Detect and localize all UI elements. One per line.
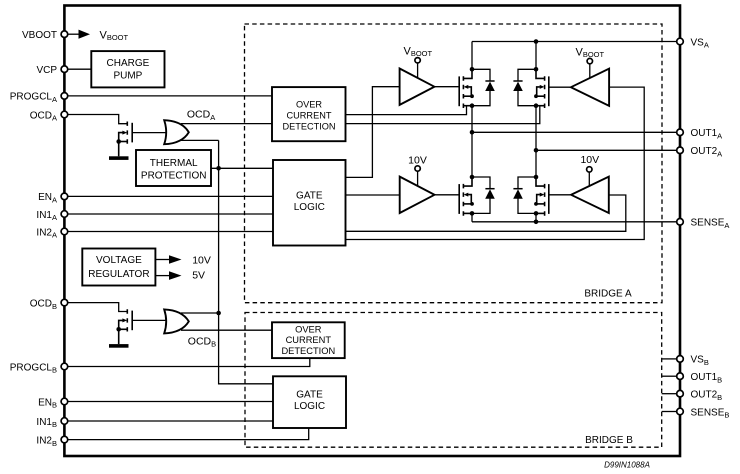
pin ENB xyxy=(38,397,68,409)
mosfet LS1 xyxy=(459,175,474,216)
terminal 10V LR xyxy=(587,167,592,172)
driver buffer LL xyxy=(400,177,435,213)
wire thermal vertical to bridge B logic xyxy=(219,140,273,383)
arrow regulator 10V xyxy=(155,255,181,264)
svg-text:BRIDGE A: BRIDGE A xyxy=(584,289,632,300)
body diode D2 xyxy=(513,69,536,105)
wire PROGCLB to OCD B xyxy=(68,358,310,366)
pin IN2A xyxy=(36,227,67,239)
node thermal junction B xyxy=(216,311,221,316)
wire VCP to charge pump xyxy=(68,68,92,70)
wire SENSEB stub xyxy=(662,411,677,413)
svg-text:REGULATOR: REGULATOR xyxy=(88,269,149,280)
node OUT1 xyxy=(470,130,475,135)
node thermal junction A xyxy=(216,166,221,171)
svg-text:SENSEB: SENSEB xyxy=(691,407,730,419)
wire buffer LR output xyxy=(549,194,571,196)
svg-text:BRIDGE B: BRIDGE B xyxy=(585,435,633,446)
pin SENSEA xyxy=(677,218,730,230)
svg-text:DETECTION: DETECTION xyxy=(281,346,335,356)
sense mosfet QB xyxy=(116,309,167,344)
terminal 10V LL xyxy=(415,166,420,171)
mosfet LS2 xyxy=(534,175,549,216)
svg-text:GATE: GATE xyxy=(296,191,323,202)
over current detection A U3 xyxy=(272,87,346,141)
svg-text:DETECTION: DETECTION xyxy=(282,122,335,132)
pin IN2B xyxy=(36,435,67,447)
wire OCD A output to OUT1 column xyxy=(346,106,467,115)
pin VSB xyxy=(677,355,709,367)
arrow to VBOOT net xyxy=(68,30,90,39)
svg-text:VBOOT: VBOOT xyxy=(22,30,57,41)
gate logic A U4 xyxy=(273,160,346,246)
svg-text:10V: 10V xyxy=(580,154,599,166)
wire OUT1B stub xyxy=(662,375,677,377)
wire gate logic A to lower left driver xyxy=(346,194,400,196)
wire LS1 source to sense rail xyxy=(471,213,473,221)
pin VBOOT xyxy=(22,30,68,41)
arrow regulator 5V xyxy=(155,271,181,280)
svg-text:CURRENT: CURRENT xyxy=(286,335,332,345)
pin IN1B xyxy=(36,417,67,429)
svg-text:5V: 5V xyxy=(192,270,205,282)
wire VSA top rail xyxy=(472,41,677,43)
svg-text:PUMP: PUMP xyxy=(113,71,142,82)
wire or gate B output to over current detection B xyxy=(181,329,272,331)
pin OUT1B xyxy=(677,372,722,384)
pin OUT1A xyxy=(677,128,722,140)
wire buffer LL output xyxy=(435,194,460,196)
node sense junction xyxy=(534,220,539,225)
wire or gate A output to over current detection A xyxy=(181,123,272,125)
ground A xyxy=(109,156,129,160)
wire PROGCLA to OCD A xyxy=(68,95,272,97)
wire IN1B to gate logic B xyxy=(68,420,273,422)
gate logic B U7 xyxy=(273,376,346,428)
node rail junction xyxy=(534,39,539,44)
wire OUT2 column xyxy=(535,106,537,177)
wire rail to HS1 drain xyxy=(471,42,473,70)
or gate B xyxy=(164,309,189,333)
wire buffer UR output xyxy=(549,86,571,88)
wire thermal output to gate logic A xyxy=(211,167,273,169)
mosfet HS2 xyxy=(534,67,549,108)
wire buffer UL output xyxy=(434,86,459,88)
svg-text:CURRENT: CURRENT xyxy=(287,110,332,120)
svg-text:D99IN1088A: D99IN1088A xyxy=(604,461,650,470)
wire gate logic A to upper left driver xyxy=(346,87,400,178)
svg-text:10V: 10V xyxy=(408,155,427,167)
body diode D3 xyxy=(472,177,495,213)
terminal VBOOT UR xyxy=(587,58,592,63)
driver buffer LR xyxy=(571,177,609,213)
svg-text:LOGIC: LOGIC xyxy=(294,401,325,412)
wire gate logic A to upper right driver xyxy=(346,87,645,239)
svg-text:VOLTAGE: VOLTAGE xyxy=(96,255,142,266)
driver buffer UR xyxy=(571,69,609,106)
charge pump U1 xyxy=(91,51,164,87)
node OUT2 xyxy=(534,148,539,153)
wire 10V LL stub xyxy=(417,171,419,186)
svg-text:PROGCLA: PROGCLA xyxy=(10,92,57,104)
mosfet HS1 xyxy=(459,67,474,108)
svg-text:PROTECTION: PROTECTION xyxy=(141,171,207,182)
wire IN1A to gate logic A xyxy=(68,213,273,215)
body diode D1 xyxy=(472,69,495,105)
wire or gate B upper to thermal line xyxy=(181,312,219,314)
svg-text:OVER: OVER xyxy=(296,99,322,109)
wire VSB stub xyxy=(662,358,677,360)
wire OCD A output to OUT2 column xyxy=(346,106,540,124)
svg-text:10V: 10V xyxy=(192,255,211,267)
wire gate logic A to lower right driver xyxy=(346,195,626,231)
body diode D4 xyxy=(513,177,536,213)
wire rail to HS2 drain xyxy=(535,42,537,70)
wire 10V LR stub xyxy=(588,172,590,186)
wire OCDB pin to sense fet drain xyxy=(68,303,127,312)
bridge B dashed boundary xyxy=(245,313,662,448)
pin IN1A xyxy=(36,210,67,222)
pin PROGCLB xyxy=(10,362,68,374)
pin OCDB xyxy=(30,298,68,310)
wire OCDA pin to sense fet drain xyxy=(68,115,127,124)
wire OUT1 rail xyxy=(472,131,677,133)
pin VSA xyxy=(677,37,709,49)
pin PROGCLA xyxy=(10,92,68,104)
wire ENB to gate logic B xyxy=(68,401,273,403)
pin VCP xyxy=(36,65,67,76)
wire VBOOT UR stub xyxy=(589,64,591,78)
wire OUT2B stub xyxy=(662,393,677,395)
svg-text:THERMAL: THERMAL xyxy=(150,158,198,169)
pin ENA xyxy=(38,192,68,204)
wire LS2 source to sense rail xyxy=(535,213,537,221)
wire IN2B to gate logic B xyxy=(68,428,309,440)
svg-text:CHARGE: CHARGE xyxy=(107,58,150,69)
svg-text:GATE: GATE xyxy=(296,390,323,401)
bridge A dashed boundary xyxy=(245,24,663,303)
svg-text:PROGCLB: PROGCLB xyxy=(10,362,57,374)
wire ENA to gate logic A xyxy=(68,195,273,197)
voltage regulator U5 xyxy=(82,249,155,286)
svg-text:OVER: OVER xyxy=(295,325,322,335)
wire SENSEA rail xyxy=(472,221,677,223)
IC outer boundary xyxy=(64,6,680,457)
pin OUT2A xyxy=(677,146,722,158)
or gate A xyxy=(164,120,189,144)
wire OUT1 column xyxy=(471,106,473,177)
pin OCDA xyxy=(30,110,68,122)
wire VBOOT UL stub xyxy=(417,63,419,78)
wire or gate A lower to thermal line xyxy=(181,139,219,141)
driver buffer UL xyxy=(400,69,435,105)
terminal VBOOT UL xyxy=(415,58,420,63)
wire OUT2 rail xyxy=(536,149,677,151)
wire IN2A to gate logic A xyxy=(68,231,273,233)
thermal protection U2 xyxy=(136,150,211,186)
sense mosfet QA xyxy=(116,122,167,157)
svg-text:LOGIC: LOGIC xyxy=(294,202,325,213)
svg-text:SENSEA: SENSEA xyxy=(691,218,730,230)
pin OUT2B xyxy=(677,390,722,402)
pin SENSEB xyxy=(677,407,730,419)
over current detection B U6 xyxy=(272,322,345,358)
ground B xyxy=(109,344,129,348)
svg-text:VCP: VCP xyxy=(36,65,57,76)
